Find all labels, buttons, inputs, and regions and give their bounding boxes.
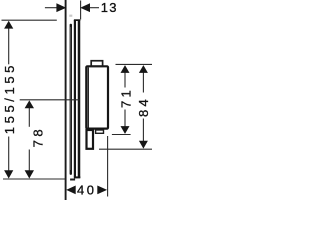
dimension 71 line upper	[124, 73, 126, 88]
dimension 78 line upper	[28, 108, 30, 127]
carrier inner highlight	[70, 27, 72, 170]
escutcheon plate top edge	[74, 19, 80, 21]
arrow 13 left (points right)	[56, 3, 66, 12]
bottom connection spigot	[87, 130, 94, 149]
arrow 84 bottom	[139, 141, 148, 149]
extension line plate front top	[80, 1, 82, 20]
wall line	[65, 0, 67, 200]
escutcheon plate bottom edge	[74, 176, 80, 178]
reference line 71 bottom	[112, 134, 131, 136]
svg-text:40: 40	[77, 182, 96, 197]
reference line 84 bottom	[99, 148, 152, 150]
svg-text:71: 71	[118, 87, 133, 108]
bottom small tab	[96, 130, 104, 133]
dimension 84 line upper	[142, 73, 144, 93]
svg-text:84: 84	[136, 96, 151, 117]
dimension 84 line lower	[142, 119, 144, 142]
plate bottom lug	[70, 179, 75, 181]
centre reference line	[20, 99, 80, 101]
arrow 155 top	[4, 21, 13, 29]
top tab on module	[91, 61, 102, 67]
dimension 13 tail right	[90, 7, 100, 9]
arrow 78 top	[25, 100, 34, 108]
dimension 155/155 line upper	[8, 28, 10, 64]
escutcheon plate left edge	[74, 20, 76, 178]
dimension 155/155 line lower	[8, 137, 10, 171]
module inner flange line	[87, 67, 89, 127]
extension line module front	[107, 136, 109, 197]
arrow 155 bottom	[4, 170, 13, 178]
arrow 84 top	[139, 65, 148, 73]
dimension 71 line lower	[124, 110, 126, 127]
arrow 40 right (points right)	[97, 186, 107, 195]
top reference line right (module top)	[116, 63, 153, 65]
arrow 71 top	[121, 65, 130, 73]
arrow 13 right (points left)	[80, 3, 90, 12]
dimension 13 tail left	[45, 7, 57, 9]
arrow 78 bottom	[25, 170, 34, 178]
faint top lug	[69, 15, 72, 17]
dimension 78 line lower	[28, 150, 30, 171]
arrow 40 left (points left)	[66, 186, 76, 195]
arrow 71 bottom	[121, 126, 130, 134]
rear carrier bar (side view)	[70, 24, 72, 175]
svg-text:155/155: 155/155	[2, 62, 17, 134]
escutcheon plate right edge	[78, 20, 81, 178]
svg-text:78: 78	[30, 126, 45, 148]
bottom reference line (plate bottom, left)	[3, 178, 65, 180]
svg-text:13: 13	[101, 0, 118, 15]
top reference line (plate top, left)	[2, 19, 57, 21]
thermostat module body	[86, 66, 108, 128]
